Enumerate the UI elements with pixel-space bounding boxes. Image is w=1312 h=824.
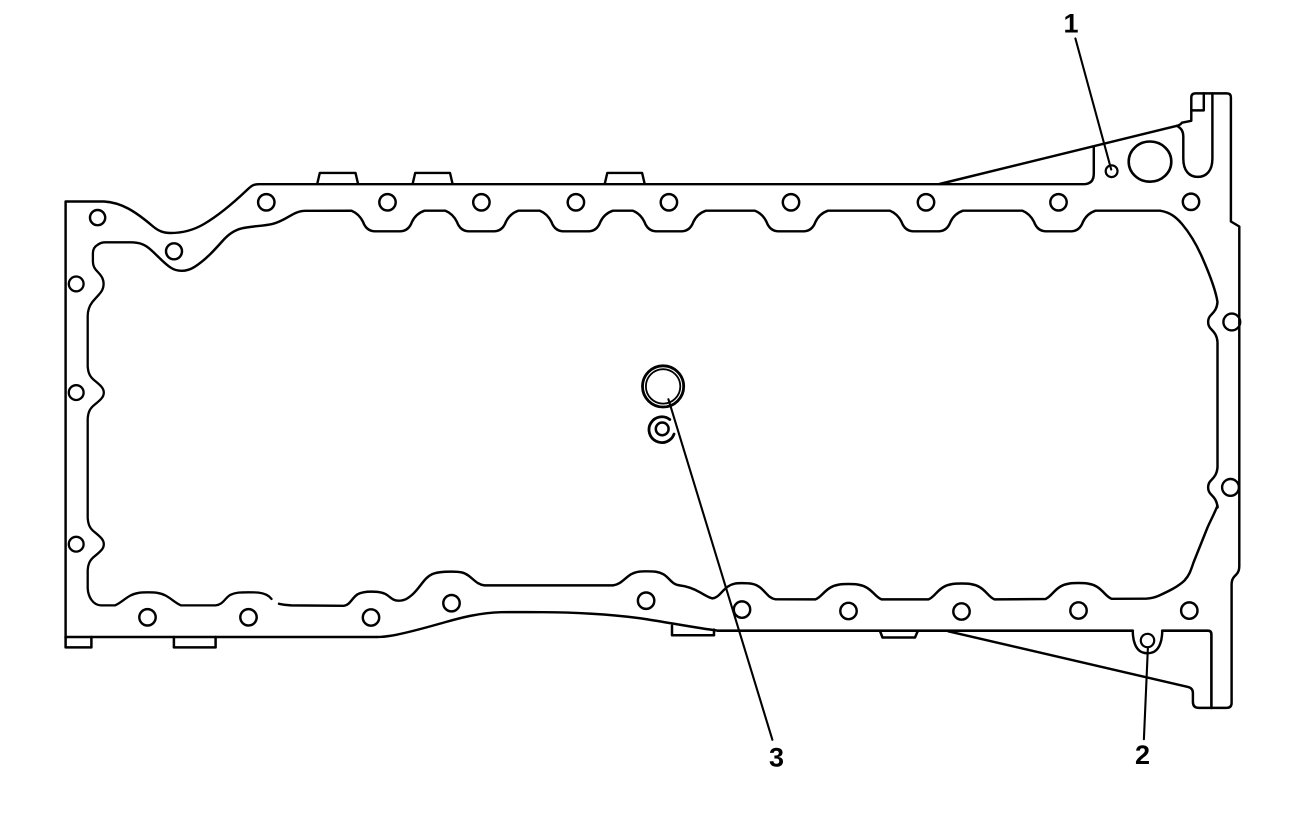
bolt hole bottom x=147.5 bbox=[139, 609, 155, 625]
bolt hole top x=481.4 bbox=[473, 194, 489, 210]
drain plug hole callout 2 target bbox=[1141, 634, 1154, 647]
bolt hole top x=575.9 bbox=[568, 194, 584, 210]
oil gallery port ring inner bbox=[646, 369, 680, 403]
svg-text:3: 3 bbox=[769, 743, 784, 773]
bolt hole bottom x=371 bbox=[363, 609, 379, 625]
top tab 2 bbox=[413, 173, 453, 183]
top tab 3 bbox=[605, 173, 645, 183]
bottom tab second bbox=[174, 637, 216, 647]
bolt hole top x=791 bbox=[783, 194, 799, 210]
bolt hole bottom x=646.1 bbox=[638, 593, 654, 609]
large hole top right bbox=[1129, 142, 1172, 182]
drain plug scallop bbox=[1133, 631, 1162, 653]
bottom tab third bbox=[672, 626, 714, 635]
bolt hole left edge y=283.9 bbox=[69, 277, 84, 292]
svg-text:2: 2 bbox=[1135, 740, 1150, 770]
bolt hole bottom x=742 bbox=[734, 601, 750, 617]
tower slot bbox=[1178, 93, 1212, 176]
bolt hole bottom x=961.5 bbox=[953, 603, 969, 619]
bottom outer edge bbox=[66, 612, 949, 637]
bolt hole bottom x=451.5 bbox=[443, 595, 459, 611]
bolt hole bottom x=1189.3 bbox=[1181, 602, 1197, 618]
bolt hole left edge y=544.2 bbox=[69, 537, 84, 552]
tower step notch bbox=[1191, 93, 1204, 110]
bolt hole top-left corner bbox=[90, 210, 105, 225]
outer contour: left edge, top-left cove and top rail bbox=[66, 147, 1094, 639]
bolt hole top right bbox=[1183, 194, 1199, 210]
inner gasket line: left side with bolt scallops and bottom-left bbox=[88, 245, 272, 606]
flange diagonal edge bbox=[940, 126, 1177, 184]
bolt hole left edge y=392.6 bbox=[69, 385, 84, 400]
bolt hole top x=668.9 bbox=[661, 194, 677, 210]
bottom tab fourth bbox=[880, 631, 918, 638]
bottom rail line right of foot split bbox=[718, 629, 1133, 632]
bolt hole top x=926 bbox=[918, 194, 934, 210]
inner gasket line: top-left pocket, top wavy edge and right side bbox=[98, 211, 1218, 508]
leader line callout 2 bbox=[1144, 648, 1148, 740]
outer contour: top-right tower, right edge and foot bbox=[948, 93, 1239, 708]
bolt hole top x=1058.5 bbox=[1050, 194, 1066, 210]
bolt hole bottom x=1078.5 bbox=[1070, 602, 1086, 618]
bottom rail to foot corner bbox=[1162, 631, 1211, 708]
bottom tab left bbox=[66, 637, 92, 647]
svg-text:1: 1 bbox=[1063, 8, 1078, 38]
leader line callout 1 bbox=[1075, 39, 1111, 170]
hole callout 1 target bbox=[1106, 165, 1118, 177]
drain bolt inner circle bbox=[656, 423, 669, 436]
bolt hole inner top-left bbox=[166, 243, 182, 259]
bolt hole right edge lower bbox=[1222, 479, 1239, 496]
leader line callout 3 bbox=[668, 399, 772, 740]
top tab 1 bbox=[317, 173, 358, 183]
inner gasket line: bottom wavy edge bbox=[279, 506, 1218, 606]
bolt hole right edge upper bbox=[1223, 314, 1240, 331]
drain bolt washer outer arc bbox=[649, 417, 674, 443]
oil gallery port ring outer bbox=[643, 366, 684, 407]
bolt hole bottom x=848.5 bbox=[840, 603, 856, 619]
bolt hole top x=266.3 bbox=[258, 194, 274, 210]
bolt hole bottom x=248.5 bbox=[240, 609, 256, 625]
bolt hole top x=387.5 bbox=[379, 194, 395, 210]
